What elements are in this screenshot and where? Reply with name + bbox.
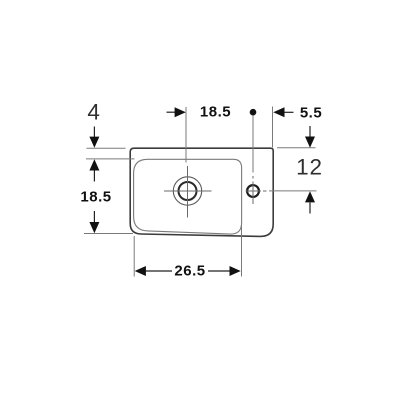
centerline drain vertical extension (185, 107, 187, 163)
basin outer outline (130, 148, 273, 236)
drain inner circle (179, 182, 197, 200)
arrow down to top edge right (dim 12 top) (309, 126, 311, 138)
arrow left to right edge (dim 5.5) (284, 111, 294, 113)
extension line inner rim (for dim 4 / 18.5 left) (86, 158, 135, 160)
svg-text:18.5: 18.5 (80, 188, 111, 205)
svg-text:26.5: 26.5 (174, 263, 205, 280)
extension line bottom left (for dim 18.5 left) (84, 233, 133, 235)
extension line right top (for dim 12) (277, 147, 316, 149)
faucet hole (247, 185, 259, 197)
extension line top of rim (for dim 4) (87, 147, 126, 149)
arrow down to bottom line (dim 18.5 left bottom) (93, 211, 95, 222)
svg-text:18.5: 18.5 (200, 104, 231, 121)
drain crosshair (164, 166, 212, 218)
arrow down to rim top (dim 4) (93, 127, 95, 139)
arrow up to inner rim (dim 18.5 left top) (93, 171, 95, 182)
basin inner bowl outline (134, 159, 242, 234)
svg-text:12: 12 (296, 155, 323, 180)
svg-text:4: 4 (87, 100, 100, 125)
extension line right edge (for dim 5.5) (272, 107, 274, 148)
dim line 26.5 left segment with arrow (145, 270, 172, 272)
drain outer circle (173, 177, 201, 205)
extension line right faucet level (for dim 12) (269, 190, 317, 192)
extension line bottom dim right (for dim 26.5) (241, 224, 243, 277)
dim line 26.5 right segment with arrow (208, 270, 231, 272)
centerline faucet vertical extension (252, 116, 254, 173)
arrow right to drain centerline (dim 18.5 top) (167, 111, 177, 113)
extension line bottom dim left (for dim 26.5) (133, 236, 135, 277)
arrow up to faucet level right (dim 12 bottom) (309, 203, 311, 214)
dot terminator at faucet centerline (250, 109, 257, 116)
svg-text:5.5: 5.5 (300, 105, 322, 122)
faucet crosshair (246, 176, 267, 204)
